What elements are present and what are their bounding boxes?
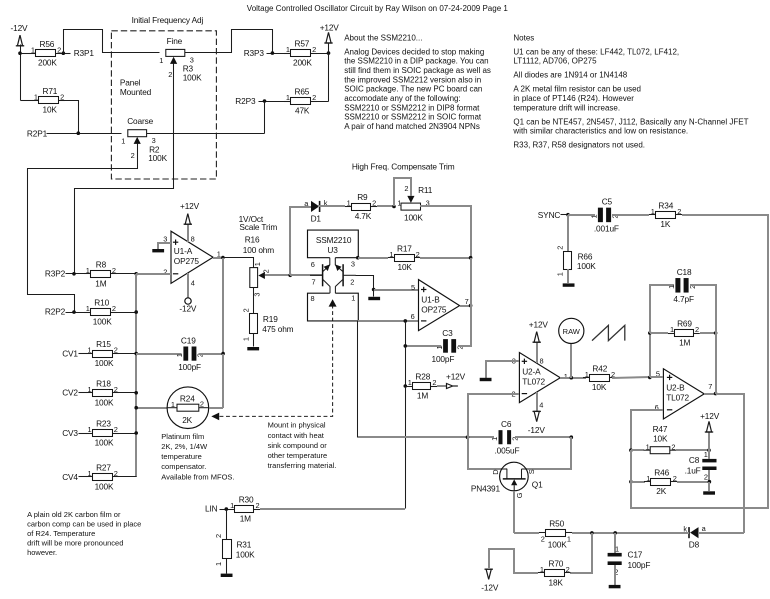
svg-text:G: G — [515, 492, 524, 498]
node node R50.1 / R70 — [590, 531, 594, 535]
svg-text:.1uF: .1uF — [685, 466, 701, 476]
svg-text:2: 2 — [60, 92, 64, 101]
node node R28.1 — [404, 384, 408, 388]
wire D1 cathode to R9.1 — [318, 205, 345, 207]
svg-text:1: 1 — [646, 442, 650, 451]
svg-text:200K: 200K — [38, 58, 57, 68]
svg-text:1: 1 — [490, 437, 499, 441]
node node R18.2 / bus — [134, 391, 138, 395]
resistor R47 — [644, 424, 677, 454]
ground R31 — [221, 574, 233, 577]
node node SYNC — [566, 213, 570, 217]
svg-text:R33, R37, R58 designators not: R33, R37, R58 designators not used. — [513, 141, 645, 150]
svg-text:2: 2 — [350, 277, 354, 286]
svg-text:Mount in physical: Mount in physical — [268, 421, 326, 430]
svg-text:2: 2 — [131, 151, 135, 160]
wire R3 pin3 up-over to R3P3 node — [185, 30, 273, 54]
resistor R23 — [86, 419, 119, 448]
wire R8.2 to bus — [117, 273, 137, 275]
power +12V (top right) — [320, 22, 340, 43]
wire U2-A pin4 stem — [536, 392, 538, 412]
wire R69.1 up to C18.1 — [650, 285, 674, 333]
node node R2P1 — [77, 131, 81, 135]
svg-text:other temperature: other temperature — [268, 451, 328, 460]
svg-text:Available from MFOS.: Available from MFOS. — [161, 472, 234, 481]
arrowhead at R24 — [211, 413, 219, 421]
resistor R31 — [214, 534, 255, 566]
resistor R8 — [84, 259, 117, 288]
svg-text:.001uF: .001uF — [594, 223, 619, 233]
node node R47.1 rail — [629, 448, 633, 452]
node node U1-A out — [221, 256, 225, 260]
svg-text:100pF: 100pF — [628, 560, 651, 570]
wire +12V node down to R65.2 — [328, 54, 330, 102]
wire R3P1 up-over to R3 pin 1 — [64, 30, 160, 54]
svg-text:Panel: Panel — [120, 78, 141, 88]
op-amp U2-A — [512, 353, 568, 410]
power +12V (U2-A pin 8) — [529, 320, 549, 343]
power +12V (R28) — [446, 371, 466, 388]
svg-text:C3: C3 — [442, 328, 453, 338]
wire U2-B pin6 down to R47 rail — [631, 410, 663, 450]
svg-text:R27: R27 — [96, 463, 111, 473]
svg-text:1: 1 — [217, 249, 221, 258]
svg-text:compensator.: compensator. — [161, 462, 206, 471]
svg-text:+12V: +12V — [700, 411, 720, 421]
svg-text:100K: 100K — [95, 358, 114, 368]
panel dashed box (Initial Frequency Adj) — [111, 31, 216, 179]
svg-text:475 ohm: 475 ohm — [262, 324, 293, 334]
wire C5.2 to R34.1 — [612, 214, 649, 216]
wire to R69.1 — [650, 332, 668, 334]
resistor R15 — [86, 339, 119, 368]
wire R50 node down to R70.2 — [570, 533, 592, 573]
svg-text:Voltage Controlled Oscillator: Voltage Controlled Oscillator Circuit by… — [247, 4, 509, 13]
svg-text:R57: R57 — [295, 39, 310, 49]
svg-text:R2P2: R2P2 — [45, 307, 66, 317]
svg-text:8: 8 — [540, 356, 544, 365]
svg-text:A plain old 2K carbon film or: A plain old 2K carbon film or — [27, 510, 121, 519]
wire RAW to U2-A out — [570, 344, 572, 378]
ground U1-A pin3 — [152, 249, 164, 252]
wire R65.2 to +12V rail — [311, 101, 329, 103]
node node R46.1 rail — [629, 480, 633, 484]
svg-text:100K: 100K — [93, 317, 112, 327]
svg-text:U2-A: U2-A — [522, 366, 541, 376]
wire U1-A pin4 to -12V — [187, 273, 189, 298]
svg-text:R18: R18 — [96, 378, 111, 388]
svg-text:R30: R30 — [239, 495, 254, 505]
svg-text:1: 1 — [351, 294, 355, 303]
svg-text:2: 2 — [555, 246, 564, 250]
svg-text:100K: 100K — [404, 212, 423, 222]
svg-text:1: 1 — [88, 425, 92, 434]
svg-text:1: 1 — [564, 372, 568, 381]
resistor R9 — [345, 192, 377, 221]
svg-text:R65: R65 — [295, 87, 310, 97]
ground C8/R46 — [703, 491, 715, 494]
node node R23.2 / bus — [134, 431, 138, 435]
svg-text:Q1: Q1 — [532, 479, 543, 489]
wire R10.2 to bus — [117, 312, 137, 314]
wire U2-B out to D8 anode — [716, 394, 744, 533]
svg-text:LIN: LIN — [205, 504, 218, 514]
node node +12V / R57.2 — [327, 51, 331, 55]
svg-text:2: 2 — [114, 425, 118, 434]
svg-text:1: 1 — [286, 45, 290, 54]
wire rail to R46.1 — [631, 481, 645, 483]
diode D8 — [683, 524, 706, 550]
svg-text:TL072: TL072 — [666, 393, 689, 403]
svg-text:2: 2 — [312, 93, 316, 102]
resistor R56 — [29, 39, 62, 68]
svg-text:7: 7 — [708, 382, 712, 391]
svg-text:3: 3 — [163, 234, 167, 243]
svg-text:R31: R31 — [236, 540, 251, 550]
wire +12V arrow stem — [328, 44, 330, 54]
wire node to U3 left base — [290, 274, 323, 276]
wire LIN to R30.1 — [220, 509, 229, 511]
svg-text:4.7pF: 4.7pF — [673, 294, 694, 304]
node node LIN — [225, 507, 229, 511]
svg-text:+12V: +12V — [320, 22, 340, 32]
wire node to ground — [708, 482, 710, 491]
resistor R66 — [555, 246, 596, 277]
wire R17.2 to U1-B net — [420, 257, 471, 259]
svg-text:R11: R11 — [418, 185, 433, 195]
svg-text:U1-A: U1-A — [174, 246, 193, 256]
wire U2-A pin8 stem — [536, 342, 538, 363]
svg-text:About the SSM2210...: About the SSM2210... — [344, 33, 422, 42]
trimmer R16 — [243, 235, 274, 297]
node node R17.2 — [469, 256, 473, 260]
svg-text:Scale Trim: Scale Trim — [239, 222, 277, 232]
svg-text:1: 1 — [34, 92, 38, 101]
svg-text:+12V: +12V — [180, 201, 200, 211]
wire CV1 to R15.1 — [79, 353, 87, 355]
svg-text:1: 1 — [567, 534, 571, 543]
svg-text:R24: R24 — [180, 394, 195, 404]
svg-text:R15: R15 — [96, 339, 111, 349]
node node R24.1 / bus — [134, 406, 138, 410]
svg-text:2: 2 — [671, 442, 675, 451]
svg-text:1: 1 — [121, 136, 125, 145]
wire R3P3 to R57.1 — [267, 53, 285, 55]
wire R70.1 jog to -12V — [489, 549, 538, 573]
node node U2-B out — [714, 392, 718, 396]
ground U3 base — [368, 297, 380, 300]
svg-text:R42: R42 — [592, 363, 607, 373]
svg-text:R23: R23 — [96, 419, 111, 429]
svg-text:Initial Frequency Adj: Initial Frequency Adj — [132, 15, 204, 25]
dashed thermal link R24 to U3 — [220, 306, 333, 416]
wire R69.2 to node — [700, 332, 716, 334]
svg-text:1: 1 — [86, 266, 90, 275]
resistor R46 — [644, 467, 677, 496]
svg-text:Mounted: Mounted — [120, 87, 152, 97]
ground R66 — [563, 283, 575, 286]
svg-text:2: 2 — [416, 250, 420, 259]
svg-text:with similar characteristics a: with similar characteristics and low on … — [512, 127, 688, 136]
svg-text:Platinum film: Platinum film — [161, 432, 204, 441]
node node -12V / R56.1 — [18, 51, 22, 55]
wire pin5 node up to R69.1 — [649, 333, 651, 377]
svg-text:100 ohm: 100 ohm — [243, 245, 274, 255]
wire U1-A pin8 to +12V — [187, 224, 189, 242]
svg-text:C18: C18 — [677, 267, 692, 277]
transistor Q1 PN4391 JFET — [471, 462, 543, 498]
wire U1-B output — [460, 305, 471, 307]
capacitor C6 — [490, 419, 519, 456]
svg-text:RAW: RAW — [563, 327, 581, 336]
svg-text:R8: R8 — [96, 259, 107, 269]
svg-text:CV2: CV2 — [62, 388, 78, 398]
svg-text:2: 2 — [241, 308, 250, 312]
svg-text:C8: C8 — [689, 455, 700, 465]
wire D8 anode to U2-B out rail — [698, 532, 744, 534]
resistor R28 — [406, 372, 437, 401]
resistor R42 — [583, 363, 616, 392]
svg-text:R71: R71 — [43, 86, 58, 96]
capacitor C8 — [685, 450, 717, 482]
resistor R30 — [228, 495, 260, 524]
svg-text:TL072: TL072 — [522, 377, 545, 387]
svg-text:1M: 1M — [240, 514, 251, 524]
svg-text:100K: 100K — [577, 261, 596, 271]
svg-text:1: 1 — [389, 250, 393, 259]
svg-text:High Freq. Compensate Trim: High Freq. Compensate Trim — [352, 162, 455, 172]
svg-text:LT1112, AD706, OP275: LT1112, AD706, OP275 — [513, 57, 597, 66]
node node U1-B pin6 — [404, 319, 408, 323]
wire node to ground — [373, 290, 375, 297]
svg-text:still find them in SOIC packag: still find them in SOIC package as well … — [344, 66, 491, 75]
wire U3.3 to R17.1 — [358, 257, 388, 259]
svg-text:-12V: -12V — [481, 582, 499, 592]
power -12V (R70) — [481, 569, 499, 592]
resistor R34 — [649, 200, 682, 229]
capacitor C19 — [175, 335, 205, 372]
svg-text:Q1 can be NTE457, 2N5457, J112: Q1 can be NTE457, 2N5457, J112, Basicall… — [513, 117, 748, 126]
svg-text:R16: R16 — [245, 235, 260, 245]
trimmer R11 — [397, 184, 432, 222]
sawtooth waveform glyph — [592, 325, 625, 340]
svg-text:+12V: +12V — [446, 371, 466, 381]
wire Q1 gate corner to R50 — [514, 532, 539, 534]
wire D8 cathode stub — [684, 532, 689, 534]
svg-text:100K: 100K — [236, 550, 255, 560]
wire C18.2 down to R69.2 — [690, 285, 716, 333]
svg-text:R3P1: R3P1 — [74, 48, 95, 58]
node node R9.2 / R11.1 — [392, 205, 396, 209]
resistor R65 — [284, 87, 317, 116]
svg-text:1: 1 — [585, 370, 589, 379]
svg-text:C17: C17 — [628, 549, 643, 559]
svg-text:-12V: -12V — [11, 23, 29, 33]
svg-text:C5: C5 — [602, 196, 613, 206]
wire SYNC dash — [561, 214, 569, 216]
resistor R57 — [284, 39, 317, 68]
svg-text:2: 2 — [404, 184, 408, 193]
svg-text:100K: 100K — [148, 153, 167, 163]
svg-text:7: 7 — [312, 277, 316, 286]
wire node to U1-B pin5 — [374, 289, 418, 291]
wire bus to U1-A pin2 — [136, 273, 171, 275]
svg-text:2: 2 — [112, 266, 116, 275]
svg-text:R50: R50 — [549, 519, 564, 529]
wire R2P2 to R10.1 — [66, 312, 85, 314]
op-amp U1-A — [163, 231, 221, 287]
wire C8.1 stem — [708, 450, 710, 459]
svg-text:1: 1 — [651, 207, 655, 216]
node node R3P3 — [271, 51, 275, 55]
svg-text:2: 2 — [256, 501, 260, 510]
node node R16 wiper / U3.7 — [288, 274, 292, 278]
svg-text:Notes: Notes — [513, 33, 534, 42]
wire R11.3 to U1-B net — [420, 206, 471, 258]
op-amp U1-B — [411, 280, 469, 331]
svg-text:temperature: temperature — [161, 452, 201, 461]
diode D1 — [304, 198, 327, 223]
wire R28 node down to R30 row — [405, 387, 407, 509]
wire R34.2 stub — [682, 214, 683, 216]
svg-text:1: 1 — [88, 469, 92, 478]
potentiometer R2 Coarse — [121, 116, 167, 163]
svg-text:2: 2 — [114, 385, 118, 394]
svg-text:R19: R19 — [263, 314, 278, 324]
svg-text:PN4391: PN4391 — [471, 484, 501, 494]
wire to C3.1 — [405, 345, 441, 347]
wire CV summing bus — [135, 274, 137, 477]
wire CV3 to R23.1 — [79, 433, 87, 435]
wire R69.2 down to U2-B out — [715, 333, 717, 394]
svg-text:1: 1 — [646, 474, 650, 483]
op-amp U2-B — [655, 369, 713, 419]
svg-text:Fine: Fine — [167, 36, 183, 46]
svg-text:R28: R28 — [415, 372, 430, 382]
svg-text:2: 2 — [163, 268, 167, 277]
wire R3 wiper to R3P2 node — [75, 64, 174, 274]
wire R2P1 to R2 pin 1 — [47, 133, 122, 135]
wire pin6 down to C3 — [405, 321, 407, 346]
svg-text:10K: 10K — [653, 434, 668, 444]
svg-text:in place of PT146 (R24). Howev: in place of PT146 (R24). However — [513, 94, 634, 103]
svg-text:1: 1 — [540, 565, 544, 574]
wire R2P3 to R65.1 — [259, 101, 285, 103]
svg-text:1: 1 — [286, 93, 290, 102]
node node R15.2 / bus — [134, 352, 138, 356]
wire R47.2 to +12V/C8 node — [676, 449, 709, 451]
wire R19 to ground — [253, 334, 255, 347]
node node C3.1 — [404, 344, 408, 348]
svg-text:3: 3 — [351, 259, 355, 268]
wire SYNC to C5.1 — [568, 214, 595, 216]
wire R23.2 to bus — [119, 433, 137, 435]
resistor R19 — [241, 308, 293, 341]
node node R69.2 — [714, 331, 718, 335]
svg-text:1: 1 — [253, 262, 262, 266]
svg-text:1: 1 — [704, 450, 708, 459]
node node R3P1 — [62, 51, 66, 55]
svg-text:SSM2210 or SSM2212 in SOIC for: SSM2210 or SSM2212 in SOIC format — [344, 113, 482, 122]
svg-text:Coarse: Coarse — [127, 116, 153, 126]
svg-text:2: 2 — [432, 378, 436, 387]
wire rail to R47.1 — [631, 449, 644, 451]
svg-text:1: 1 — [31, 45, 35, 54]
svg-text:47K: 47K — [295, 106, 310, 116]
power -12V (U1-A pin 4, circle) — [179, 298, 197, 314]
svg-text:2: 2 — [312, 45, 316, 54]
transistor pair U3 lower outline — [308, 293, 359, 321]
svg-text:1: 1 — [175, 353, 184, 357]
svg-text:2: 2 — [114, 469, 118, 478]
wire R31 to ground — [226, 559, 228, 574]
wire R2 pin3 to R2P3 node — [147, 133, 265, 135]
svg-text:2: 2 — [695, 325, 699, 334]
svg-text:transferring material.: transferring material. — [268, 461, 337, 470]
wire C3 node down to R28 — [405, 346, 407, 387]
svg-text:U1 can be any of these: LF442,: U1 can be any of these: LF442, TL072, LF… — [513, 47, 679, 56]
wire R18.2 to bus — [119, 392, 137, 394]
svg-text:R56: R56 — [40, 39, 55, 49]
svg-text:1: 1 — [667, 285, 676, 289]
wire U1-A out down to C19 — [222, 258, 224, 354]
svg-text:2: 2 — [168, 70, 172, 79]
node node C6.2 / U2-A out — [570, 435, 574, 439]
wire C19.2 to R24 node — [199, 353, 223, 355]
svg-text:R46: R46 — [654, 467, 669, 477]
svg-text:4: 4 — [191, 278, 195, 287]
svg-text:D: D — [491, 469, 500, 474]
node node R10.2 / bus — [134, 310, 138, 314]
wire R17 node to U1-B out — [470, 258, 472, 306]
transistor pair U3 SSM2210 (IC outline) — [308, 230, 359, 258]
wire R28.2 to +12V arrow — [437, 385, 446, 387]
svg-text:1: 1 — [590, 214, 599, 218]
svg-text:k: k — [683, 524, 687, 533]
svg-text:2K: 2K — [656, 486, 666, 496]
wire U3.2 base to node — [356, 276, 374, 290]
wire U2-A pin2 to C6 node — [468, 394, 519, 437]
wire U3 base node up to D1 anode — [290, 207, 311, 275]
svg-text:1: 1 — [159, 56, 163, 65]
svg-text:Analog Devices decided to stop: Analog Devices decided to stop making — [344, 47, 484, 56]
svg-text:SYNC: SYNC — [538, 210, 561, 220]
svg-text:SSM2210 or SSM2212 in DIP8 for: SSM2210 or SSM2212 in DIP8 format — [344, 103, 480, 112]
wire U2-B output — [704, 393, 716, 395]
node node C19.2 — [221, 352, 225, 356]
wire U1-A out to R16 top — [223, 258, 254, 268]
svg-text:1: 1 — [86, 304, 90, 313]
ground R19 — [247, 347, 259, 350]
node RAW output — [559, 318, 584, 343]
svg-text:carbon comp can be used in pla: carbon comp can be used in place — [27, 519, 141, 528]
capacitor C3 — [432, 328, 465, 364]
power -12V (top left) — [11, 23, 29, 46]
node node U3.3 / R17 — [356, 256, 360, 260]
svg-text:1: 1 — [88, 385, 92, 394]
capacitor C18 — [667, 267, 697, 304]
power -12V (U2-A pin 4) — [528, 411, 546, 435]
svg-text:10K: 10K — [592, 382, 607, 392]
svg-text:D1: D1 — [311, 213, 322, 223]
svg-text:the improved SSM2212 version a: the improved SSM2212 version also in — [344, 75, 481, 84]
node node R8.2 / bus — [134, 272, 138, 276]
svg-text:1: 1 — [241, 337, 250, 341]
svg-text:1: 1 — [347, 199, 351, 208]
potentiometer R3 Fine — [159, 36, 202, 83]
svg-text:OP275: OP275 — [174, 256, 200, 266]
wire to R71.1 — [21, 100, 33, 102]
